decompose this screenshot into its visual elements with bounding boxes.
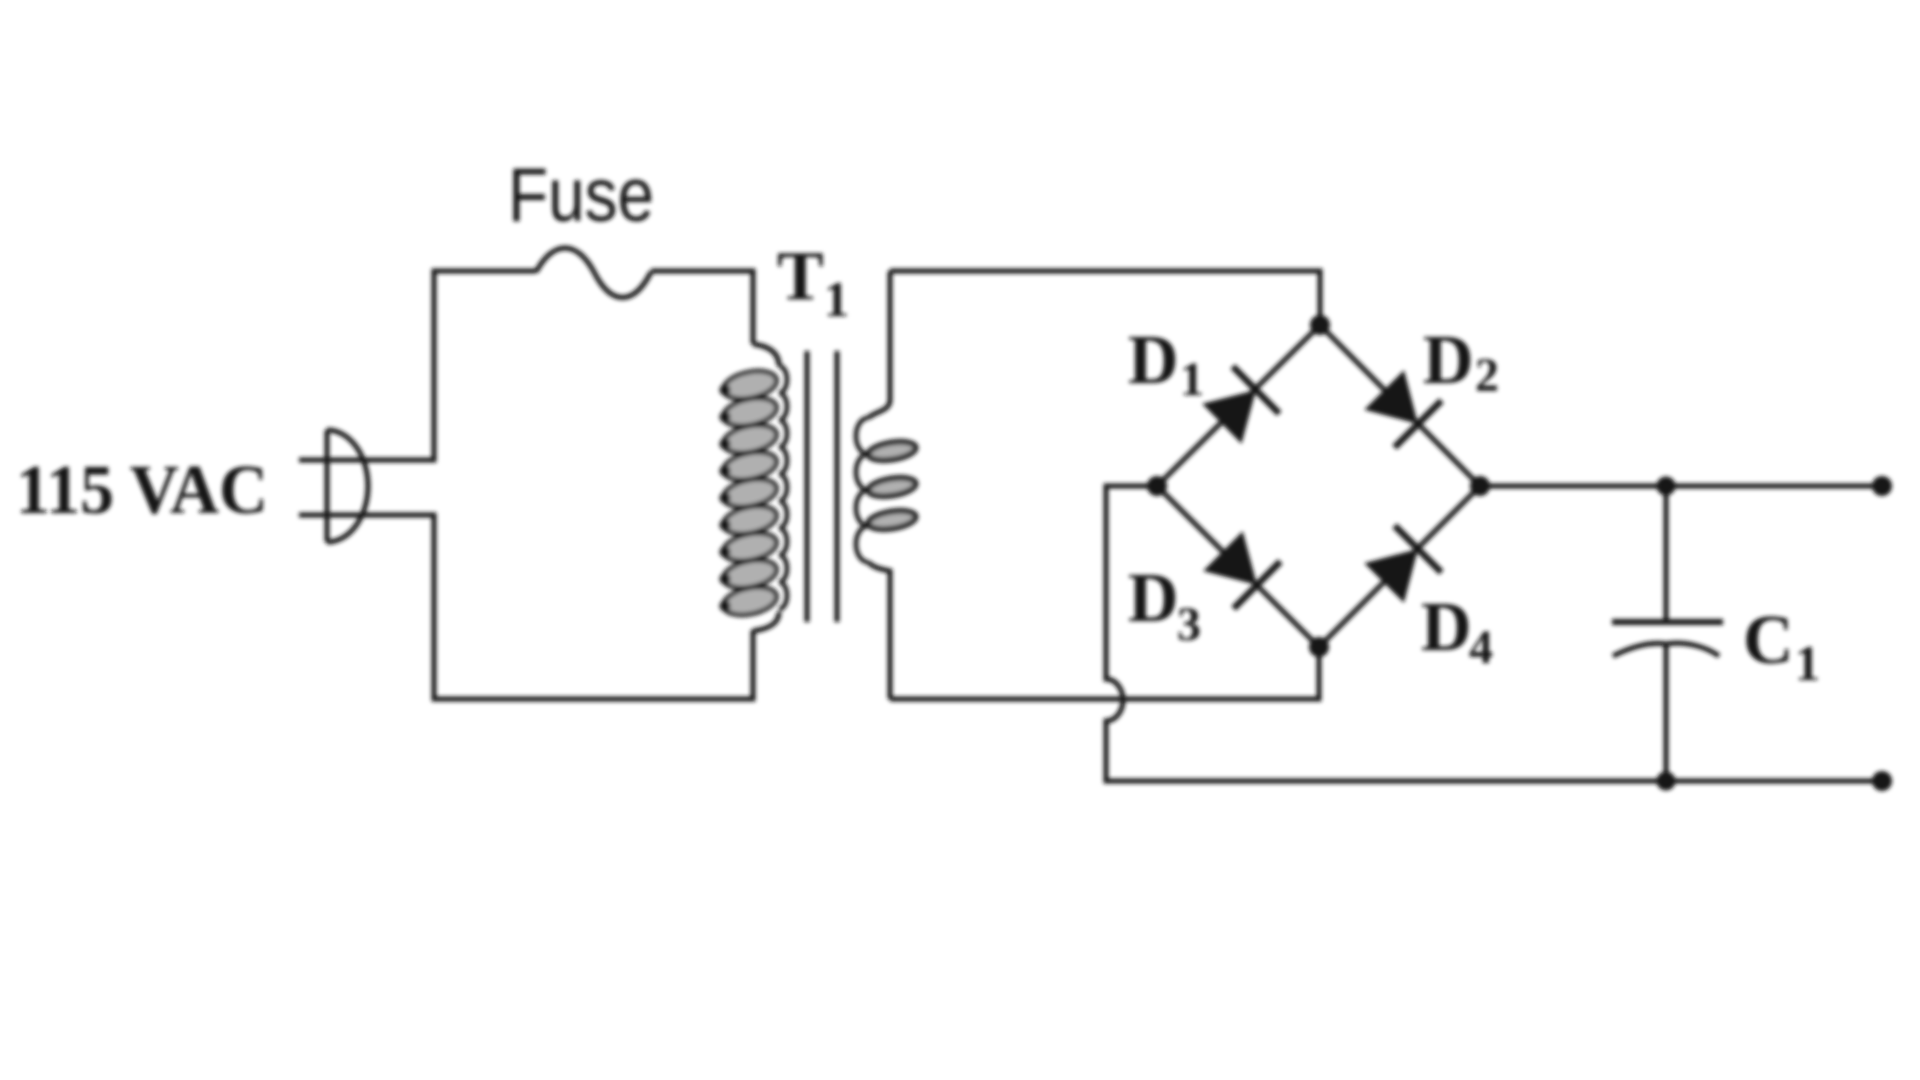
svg-text:4: 4 xyxy=(1469,621,1493,674)
svg-text:C: C xyxy=(1743,602,1794,679)
svg-text:1: 1 xyxy=(824,271,849,327)
svg-text:D: D xyxy=(1421,589,1472,666)
svg-text:D: D xyxy=(1128,560,1179,637)
svg-text:Fuse: Fuse xyxy=(508,153,654,238)
svg-text:D: D xyxy=(1128,322,1179,399)
svg-text:3: 3 xyxy=(1177,598,1201,651)
svg-text:1: 1 xyxy=(1180,353,1204,406)
svg-text:T: T xyxy=(777,238,824,315)
svg-text:1: 1 xyxy=(1795,635,1820,691)
svg-text:D: D xyxy=(1423,322,1474,399)
svg-text:2: 2 xyxy=(1475,349,1499,402)
svg-text:115 VAC: 115 VAC xyxy=(16,452,268,529)
